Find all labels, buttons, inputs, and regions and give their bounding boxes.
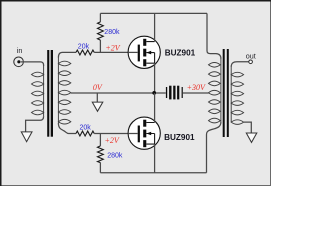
- wire top rail to T2 primary: [207, 13, 221, 58]
- svg-text:out: out: [246, 52, 256, 61]
- svg-text:280k: 280k: [107, 152, 123, 159]
- resistor R3 20k: [76, 131, 94, 136]
- transformer T1 secondary winding: [58, 57, 70, 124]
- transistor Q2 BUZ901: [128, 117, 160, 149]
- wire source Q2 to bottom rail: [154, 144, 156, 173]
- node out terminal: [246, 52, 256, 64]
- svg-text:in: in: [17, 46, 23, 55]
- wire secondary top to R1: [58, 52, 76, 57]
- resistor R2 280k: [98, 13, 104, 52]
- svg-text:0V: 0V: [93, 83, 103, 92]
- wire secondary bottom to R3: [58, 123, 76, 134]
- wire bottom rail: [100, 172, 206, 174]
- wire drain Q2 from junction: [154, 93, 156, 123]
- junction dot: [152, 91, 156, 95]
- wire top rail: [100, 12, 207, 14]
- wire primary to ground: [26, 116, 44, 131]
- wire R3 to gate Q2: [94, 133, 138, 135]
- svg-text:+2V: +2V: [105, 136, 120, 145]
- svg-text:280k: 280k: [104, 29, 120, 36]
- wire T2 secondary top to out: [231, 62, 249, 67]
- wire middle rail 0V: [71, 92, 166, 94]
- svg-text:BUZ901: BUZ901: [165, 49, 196, 58]
- wire T2 secondary bottom to ground: [244, 122, 252, 133]
- transistor Q1 BUZ901: [128, 36, 160, 68]
- battery +30V: [166, 86, 183, 100]
- svg-text:20k: 20k: [78, 44, 90, 51]
- transformer T2 secondary winding: [231, 67, 243, 124]
- wire drain Q1: [154, 13, 156, 41]
- transformer T1 primary winding: [32, 66, 44, 116]
- ground middle: [92, 102, 103, 111]
- wire source Q1 to middle rail: [154, 63, 156, 93]
- wire T2 primary bottom to rail: [207, 122, 221, 173]
- resistor R1 20k: [76, 50, 94, 55]
- transformer T2 primary winding: [209, 58, 221, 123]
- resistor R4 280k: [98, 134, 104, 173]
- ground input: [21, 132, 32, 142]
- svg-text:20k: 20k: [80, 125, 92, 132]
- svg-text:+30V: +30V: [187, 83, 206, 92]
- wire battery to T2 centre tap: [183, 92, 209, 94]
- transformer T1 core: [47, 50, 53, 137]
- wire ground stub middle: [96, 93, 98, 102]
- wire R1 to gate Q1: [94, 51, 138, 53]
- svg-text:+2V: +2V: [105, 43, 120, 52]
- transformer T2 core: [223, 49, 229, 137]
- ground output: [246, 133, 256, 142]
- svg-text:BUZ901: BUZ901: [164, 133, 195, 142]
- node in terminal: [14, 46, 24, 67]
- wire in to transformer primary: [21, 62, 44, 66]
